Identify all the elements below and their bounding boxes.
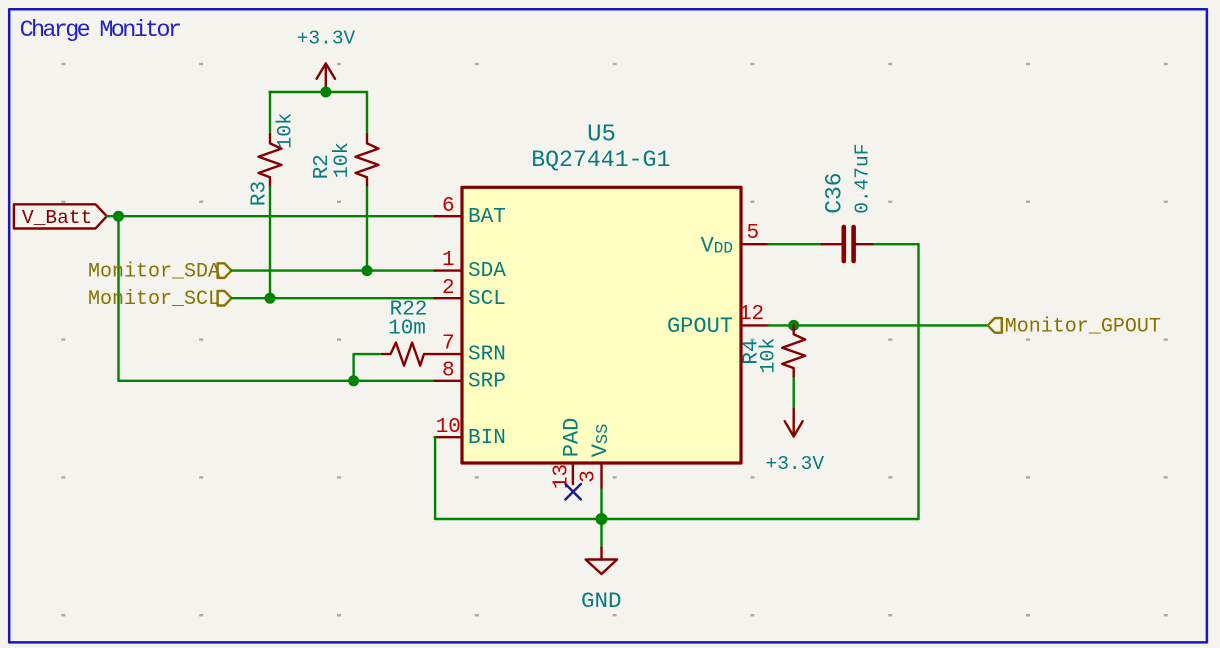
junction GPOUT / R4 — [788, 320, 799, 331]
wire BIN down — [434, 437, 436, 519]
svg-text:+3.3V: +3.3V — [766, 453, 825, 475]
wire R3 bottom vertical to SCL net — [269, 187, 271, 298]
svg-text:SRN: SRN — [468, 344, 506, 367]
pin 8 SRP — [435, 359, 506, 393]
svg-text:Monitor_SDA: Monitor_SDA — [88, 261, 220, 284]
wire GND stub — [600, 519, 602, 548]
svg-text:SCL: SCL — [468, 288, 506, 311]
wire VSS to bottom rail — [600, 489, 602, 519]
junction at +3.3V top rail — [320, 87, 331, 98]
svg-text:+3.3V: +3.3V — [297, 28, 356, 50]
wire left riser from V_Batt to SRP — [117, 216, 119, 381]
wire BAT net horizontal — [107, 215, 435, 217]
svg-text:BAT: BAT — [468, 206, 506, 229]
svg-text:Monitor_GPOUT: Monitor_GPOUT — [1005, 315, 1161, 338]
capacitor C36 — [822, 227, 874, 261]
pin 12 GPOUT — [667, 303, 769, 339]
wire R4 to +3.3V arrow — [793, 378, 795, 409]
junction SDA / R2 — [362, 265, 373, 276]
svg-text:BIN: BIN — [468, 427, 506, 450]
wire VDD to C36 — [769, 243, 822, 245]
pin 2 SCL — [435, 277, 506, 311]
svg-text:7: 7 — [442, 333, 455, 356]
pin 3 VSS — [577, 424, 612, 490]
junction at V_Batt — [113, 211, 124, 222]
pin 6 BAT — [435, 195, 506, 229]
power +3.3V (down, right) — [766, 409, 825, 475]
resistor R3 — [259, 135, 282, 188]
hierarchical label Monitor_SDA — [88, 261, 232, 284]
svg-text:SDA: SDA — [468, 260, 506, 283]
svg-text:10: 10 — [436, 416, 461, 439]
hierarchical label Monitor_GPOUT — [988, 315, 1161, 338]
wire SRP net — [119, 380, 435, 382]
wire top horizontal between R3 and R2 — [270, 91, 368, 93]
svg-text:GPOUT: GPOUT — [667, 314, 733, 339]
wire R22 left lead down to SRP — [354, 354, 380, 381]
junction SRP / R22 — [348, 375, 359, 386]
svg-text:2: 2 — [442, 277, 455, 300]
no-connect cross on PAD — [565, 484, 581, 500]
global label V_Batt — [14, 204, 107, 229]
wire R2 top vertical — [366, 92, 368, 135]
svg-text:BQ27441-G1: BQ27441-G1 — [531, 147, 670, 173]
wire R3 top vertical — [269, 92, 271, 135]
svg-text:SRP: SRP — [468, 370, 506, 393]
junction bottom rail / GND — [596, 513, 608, 525]
svg-text:PAD: PAD — [559, 418, 584, 458]
pin 13 PAD (no-connect) — [550, 418, 584, 489]
resistor R22 — [382, 343, 435, 366]
power GND symbol — [581, 548, 622, 614]
wire C36 to right rail corner — [874, 243, 918, 245]
wire right vertical rail — [917, 244, 919, 519]
IC U5 BQ27441-G1 body — [462, 187, 741, 463]
svg-text:R3: R3 — [248, 181, 271, 206]
svg-text:10k: 10k — [274, 113, 297, 149]
svg-text:13: 13 — [550, 464, 573, 489]
resistor R2 — [356, 135, 379, 188]
wire R2 bottom vertical to SDA net — [366, 187, 368, 270]
svg-text:8: 8 — [442, 359, 455, 382]
svg-text:10m: 10m — [388, 317, 426, 340]
wire bottom horizontal rail — [435, 518, 918, 520]
junction SCL / R3 — [265, 293, 276, 304]
hierarchical label Monitor_SCL — [88, 288, 232, 311]
svg-text:1: 1 — [442, 249, 455, 272]
pin 5 VDD — [701, 222, 769, 258]
pin 7 SRN — [435, 333, 506, 367]
power +3.3V (top) — [297, 28, 356, 93]
svg-text:12: 12 — [739, 303, 764, 326]
svg-text:5: 5 — [746, 222, 759, 245]
svg-text:Charge Monitor: Charge Monitor — [20, 17, 180, 44]
svg-text:V_Batt: V_Batt — [22, 207, 92, 229]
wire SCL net — [232, 297, 435, 299]
svg-text:10k: 10k — [331, 142, 354, 178]
pin 1 SDA — [435, 249, 507, 283]
resistor R4 — [782, 325, 805, 378]
svg-text:Monitor_SCL: Monitor_SCL — [88, 288, 220, 311]
wire GPOUT net — [769, 324, 988, 326]
pin 10 BIN — [435, 416, 506, 450]
svg-text:U5: U5 — [587, 121, 616, 148]
svg-text:GND: GND — [581, 588, 622, 614]
wire SDA net — [232, 269, 435, 271]
svg-text:10k: 10k — [758, 338, 781, 374]
svg-text:C36: C36 — [822, 172, 848, 213]
svg-text:6: 6 — [442, 195, 455, 218]
svg-text:3: 3 — [577, 470, 600, 483]
svg-text:0.47uF: 0.47uF — [851, 144, 873, 214]
